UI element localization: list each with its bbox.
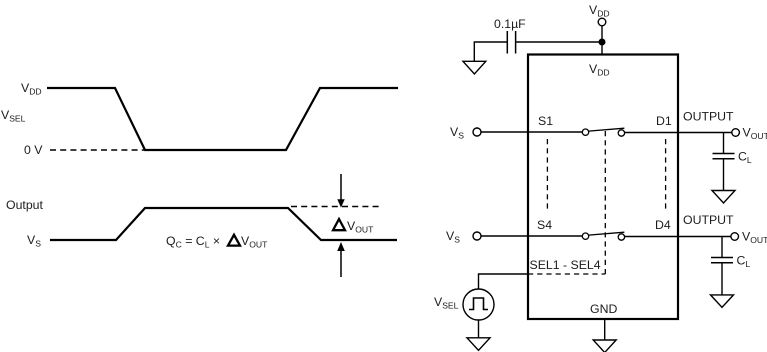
svg-text:OUTPUT: OUTPUT (683, 213, 734, 227)
label S4 (537, 218, 552, 232)
label S1 (538, 114, 553, 128)
wire D4 to VOUT row 2 (625, 236, 731, 238)
ground (bypass capacitor) (463, 61, 486, 74)
wire CL to ground row 2 (721, 263, 723, 295)
wire VS to switch S4 (481, 235, 582, 237)
wire Output waveform (50, 208, 397, 240)
capacitor CL row 1 (713, 154, 735, 159)
label GND pin (inside box) (590, 302, 617, 316)
label OUTPUT row 1 (683, 110, 734, 124)
label 0 V (24, 143, 43, 157)
wire dashed output-high reference (291, 206, 381, 208)
label VDD (waveform high level) (21, 81, 42, 97)
label VS (27, 233, 41, 249)
label equation QC = CL x dVOUT (166, 234, 268, 250)
wire D1 to VOUT row 1 (625, 132, 732, 134)
label CL row 1 (738, 150, 752, 166)
svg-text:Output: Output (6, 198, 43, 212)
node VS terminal row 1 (473, 128, 481, 136)
label CL row 2 (737, 254, 751, 270)
ground (GND pin) (593, 340, 616, 352)
wire VSEL to ground (478, 320, 480, 338)
node VOUT terminal row 1 (732, 129, 740, 137)
label VS (row 2 source) (446, 229, 460, 245)
switch SW1 (582, 128, 624, 136)
wire VDD terminal to junction (601, 26, 603, 42)
wire junction into box VDD pin (601, 42, 603, 54)
label VOUT row 2 (742, 230, 767, 246)
arrow up (delta bottom) (337, 242, 345, 277)
label VSEL source (434, 295, 459, 311)
label D1 (656, 114, 672, 128)
node VOUT terminal row 2 (731, 233, 739, 241)
svg-text:OUTPUT: OUTPUT (683, 110, 734, 124)
dashed link right (D1 gang) (665, 139, 667, 210)
dashed SEL horizontal link (528, 273, 605, 275)
node VDD terminal (598, 18, 606, 26)
svg-text:0 V: 0 V (24, 143, 43, 157)
wire VSEL waveform (47, 88, 398, 150)
wire VSEL to SEL pin (479, 274, 529, 289)
svg-text:D1: D1 (656, 114, 672, 128)
svg-text:D4: D4 (655, 218, 671, 232)
label delta VOUT (333, 219, 374, 235)
DUT box (528, 55, 678, 320)
dashed link middle (control) (604, 131, 606, 274)
ground (VSEL) (467, 338, 490, 351)
source VSEL (pulse generator) (463, 289, 494, 320)
wire GND pin to ground (604, 319, 606, 340)
ground (CL row 1) (712, 191, 735, 204)
svg-text:GND: GND (590, 302, 617, 316)
wire VS to switch S1 (481, 131, 582, 133)
label SEL1 - SEL4 (530, 258, 601, 272)
label 0.1uF (494, 17, 526, 31)
wire junction to bypass capacitor (516, 41, 602, 43)
label Output (6, 198, 43, 212)
svg-text:S1: S1 (538, 114, 553, 128)
label OUTPUT row 2 (683, 213, 734, 227)
label VSEL (1, 108, 26, 124)
dashed link left (S1 gang) (546, 139, 548, 210)
label VDD pin (inside box) (589, 62, 610, 78)
arrow down (delta top) (337, 174, 344, 208)
wire VOUT to CL row 2 (721, 237, 723, 258)
switch SW4 (582, 232, 624, 240)
ground (CL row 2) (711, 295, 734, 308)
wire VOUT to CL row 1 (723, 133, 725, 154)
label VOUT row 1 (743, 126, 767, 142)
capacitor CL row 2 (711, 258, 733, 263)
label VDD supply (top) (589, 3, 610, 19)
svg-text:0.1µF: 0.1µF (494, 17, 526, 31)
svg-text:QC = CL ×: QC = CL × (166, 234, 220, 250)
svg-text:SEL1 - SEL4: SEL1 - SEL4 (530, 258, 601, 272)
capacitor C 0.1uF (507, 31, 515, 54)
label VS (row 1 source) (450, 125, 464, 141)
wire capacitor to ground (474, 42, 507, 61)
node VS terminal row 2 (473, 232, 481, 240)
junction VDD node (599, 39, 606, 46)
wire 0V dashed baseline (50, 149, 145, 151)
label D4 (655, 218, 671, 232)
svg-text:S4: S4 (537, 218, 552, 232)
wire CL to ground row 1 (723, 159, 725, 191)
